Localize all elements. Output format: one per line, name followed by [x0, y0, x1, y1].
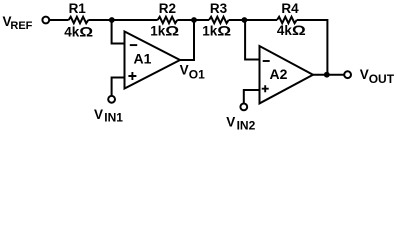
svg-text:1k: 1k	[150, 24, 166, 39]
svg-text:Ω: Ω	[292, 23, 306, 38]
svg-text:V: V	[180, 63, 189, 78]
op-amp A1	[125, 32, 181, 89]
A2 inverting pin minus sign	[263, 60, 270, 62]
svg-text:REF: REF	[10, 20, 32, 32]
svg-text:V: V	[226, 115, 235, 130]
svg-text:4k: 4k	[277, 23, 293, 38]
wire node C to A2 inverting input	[245, 20, 259, 60]
svg-text:R1: R1	[69, 1, 87, 16]
svg-text:V: V	[360, 67, 369, 82]
svg-text:V: V	[94, 107, 103, 122]
wire A1 output to node B	[180, 20, 194, 60]
svg-text:R3: R3	[210, 1, 228, 16]
wire R3 to R4	[229, 19, 277, 21]
resistor R3	[209, 17, 229, 23]
svg-text:R4: R4	[281, 1, 299, 16]
A1 inverting pin minus sign	[130, 44, 137, 46]
junction node A (R1/R2/A1-)	[109, 17, 115, 23]
A1 noninverting pin plus sign	[128, 72, 136, 80]
A2 noninverting pin plus sign	[262, 85, 269, 92]
wire node A to A1 inverting input	[112, 20, 125, 44]
resistor R1	[69, 17, 89, 23]
svg-text:O1: O1	[189, 68, 205, 82]
terminal VOUT	[344, 71, 351, 78]
wire VREF to R1	[49, 19, 68, 21]
svg-text:R2: R2	[159, 1, 176, 16]
svg-text:A1: A1	[134, 51, 152, 67]
op-amp A2	[260, 46, 314, 103]
svg-text:Ω: Ω	[79, 25, 93, 40]
terminal VIN2	[240, 104, 247, 111]
svg-text:A2: A2	[270, 66, 288, 82]
svg-text:1k: 1k	[202, 24, 218, 39]
wire R1 to R2	[88, 19, 157, 21]
wire R2 to R3	[177, 19, 209, 21]
wire R4 to output node (corner)	[297, 20, 328, 75]
wire VIN1 to A1 noninverting input	[112, 78, 125, 96]
wire A2 output to VOUT	[313, 74, 344, 76]
svg-text:4k: 4k	[64, 25, 80, 40]
terminal VIN1	[108, 96, 115, 103]
junction node D (A2 out/R4/VOUT)	[324, 72, 330, 78]
svg-text:OUT: OUT	[369, 72, 395, 86]
wire VIN2 to A2 noninverting input	[244, 90, 260, 104]
resistor R2	[158, 17, 178, 23]
terminal VREF	[42, 17, 49, 24]
junction node B (R2/R3/A1 out)	[191, 17, 197, 23]
svg-text:IN1: IN1	[104, 111, 123, 125]
svg-text:Ω: Ω	[165, 24, 179, 39]
svg-text:IN2: IN2	[237, 119, 256, 133]
resistor R4	[277, 17, 297, 23]
svg-text:Ω: Ω	[217, 24, 231, 39]
junction node C (R3/R4/A2-)	[242, 17, 248, 23]
